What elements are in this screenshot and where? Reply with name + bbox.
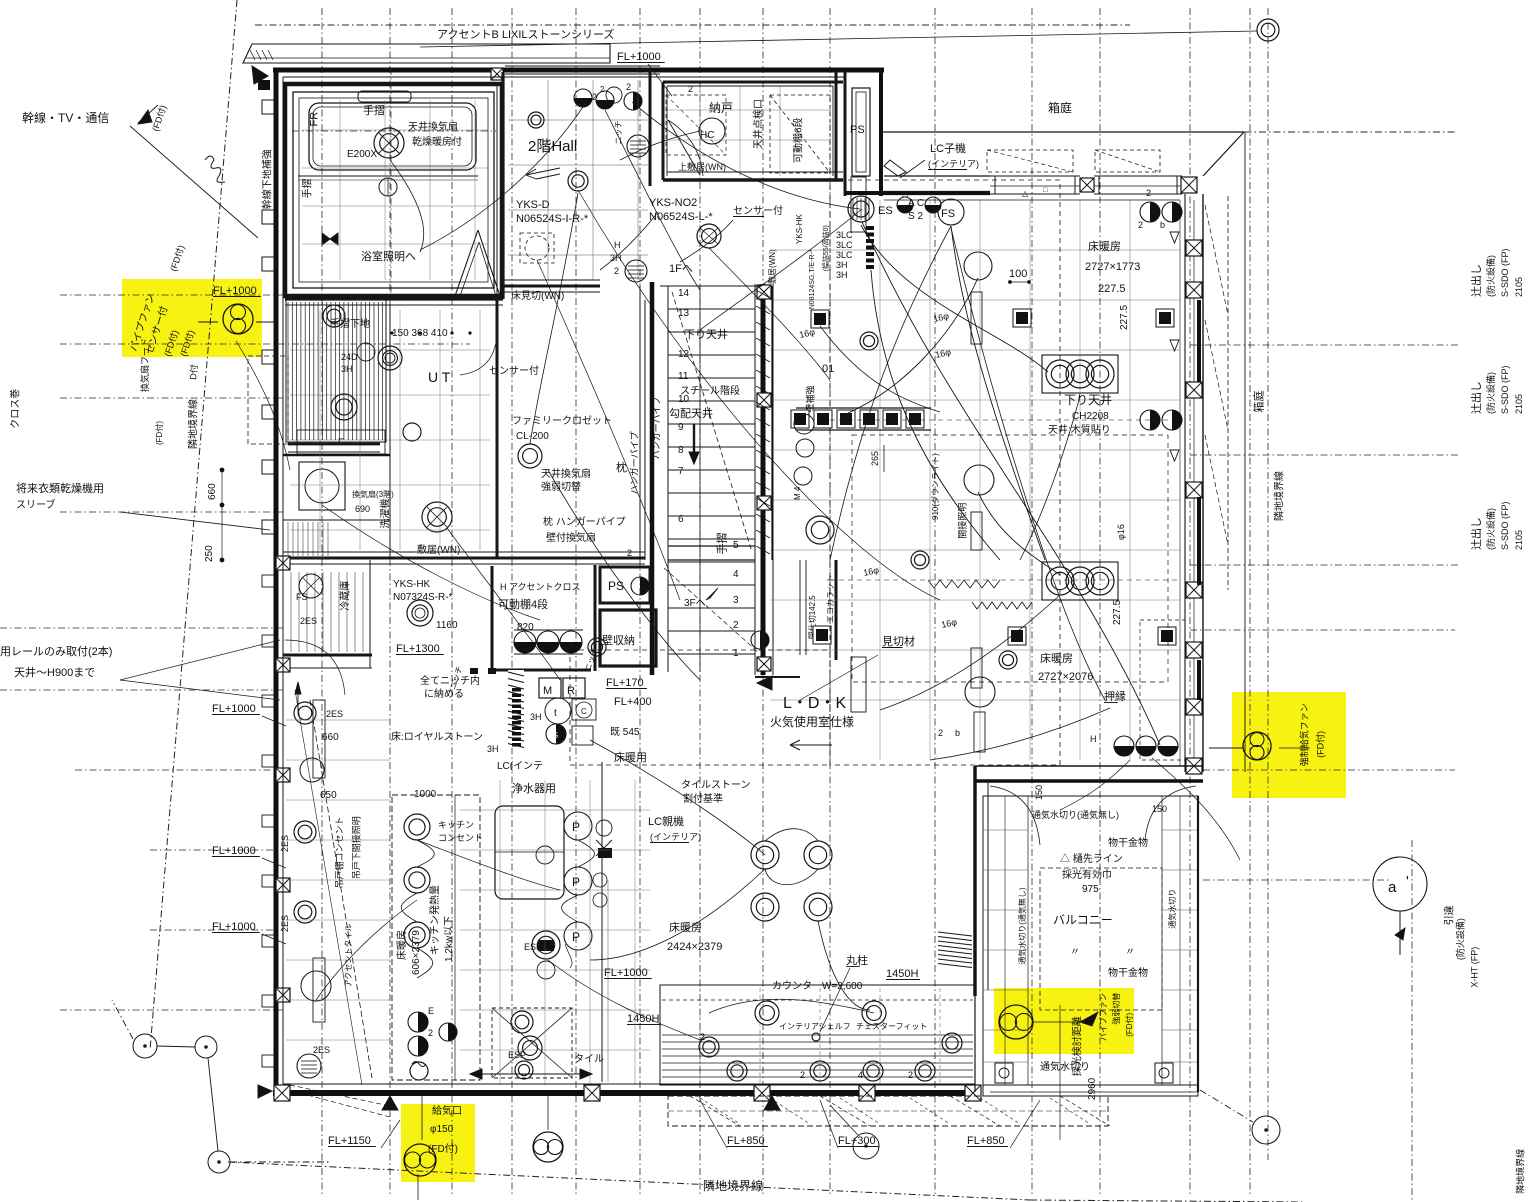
svg-text:(FD付): (FD付) bbox=[154, 421, 164, 445]
svg-text:9: 9 bbox=[678, 422, 684, 433]
svg-text:クロス巻: クロス巻 bbox=[10, 389, 22, 429]
svg-text:N06524S-I-R-*: N06524S-I-R-* bbox=[516, 213, 589, 225]
kitchen lower circles bbox=[408, 1012, 428, 1032]
svg-text:(防火設備): (防火設備) bbox=[1455, 918, 1466, 960]
svg-text:3: 3 bbox=[733, 595, 739, 606]
svg-text:φ16: φ16 bbox=[1116, 524, 1126, 540]
accent panel hatch tip bbox=[250, 50, 255, 60]
svg-text:2: 2 bbox=[688, 84, 693, 94]
svg-text:01: 01 bbox=[822, 363, 834, 375]
yellow2 fan right bbox=[1243, 732, 1271, 760]
wall: hall left / bath right bbox=[501, 72, 504, 299]
wall ticks along left exterior bbox=[262, 575, 276, 587]
svg-text:S-SDO (FP): S-SDO (FP) bbox=[1500, 365, 1510, 414]
nando inner lines bbox=[667, 85, 833, 87]
svg-text:通気水切り(通気無し): 通気水切り(通気無し) bbox=[1017, 887, 1027, 965]
svg-text:2: 2 bbox=[908, 1070, 913, 1080]
wall: balcony top (LDK lower-right) bbox=[975, 765, 1203, 767]
svg-text:タイル: タイル bbox=[574, 1053, 604, 1065]
UT room grid bbox=[319, 310, 321, 550]
svg-text:FL+1150: FL+1150 bbox=[328, 1135, 371, 1147]
kitchen left dashed cabinet bbox=[392, 795, 480, 1080]
inner line exterior bottom wall bbox=[283, 1083, 975, 1085]
floor heating panel lower bbox=[1042, 562, 1118, 600]
boundary line bottom (slanted) bbox=[228, 1162, 1030, 1200]
wall: UT/stair divider x=652 bbox=[650, 282, 655, 675]
svg-text:2: 2 bbox=[1138, 220, 1143, 230]
bath room grid bbox=[339, 100, 341, 280]
wall piece 01 bbox=[771, 286, 773, 560]
bathroom small circle bbox=[379, 178, 397, 196]
svg-text:チェスターフィット: チェスターフィット bbox=[856, 1022, 927, 1031]
zigzag partition hatch LDK bbox=[928, 580, 1000, 588]
svg-text:強弱切替: 強弱切替 bbox=[541, 480, 581, 493]
svg-text:2: 2 bbox=[627, 548, 632, 558]
svg-text:2: 2 bbox=[733, 620, 739, 631]
svg-text:通気水切り(通気無し): 通気水切り(通気無し) bbox=[1032, 809, 1119, 820]
vent triangles right wall bbox=[1170, 232, 1179, 243]
svg-text:14: 14 bbox=[678, 288, 690, 299]
svg-text:975: 975 bbox=[1082, 884, 1099, 895]
svg-text:辻出し: 辻出し bbox=[1469, 381, 1483, 414]
stair top divider bbox=[660, 285, 762, 287]
svg-text:バルコニー: バルコニー bbox=[1053, 913, 1113, 927]
counter bar bottom-right bbox=[660, 985, 975, 1085]
svg-text:隣地境界線: 隣地境界線 bbox=[187, 399, 200, 449]
svg-text:150: 150 bbox=[1034, 785, 1044, 800]
boundary line left (slanted) bbox=[150, 0, 237, 1050]
svg-text:X-HT (FP): X-HT (FP) bbox=[1470, 947, 1480, 988]
kitchen island bbox=[495, 806, 564, 899]
ES FS circles top bbox=[848, 196, 874, 222]
room: wall storage bbox=[600, 610, 656, 666]
svg-text:床暖房: 床暖房 bbox=[669, 920, 702, 934]
balcony inner dashed bbox=[1040, 868, 1162, 1010]
pendant P circles bbox=[564, 812, 592, 840]
hakoniwa fence line right bbox=[1244, 132, 1246, 772]
washing machine bbox=[299, 462, 345, 510]
svg-text:12: 12 bbox=[678, 349, 690, 360]
UT bottom wall inner bbox=[283, 551, 645, 553]
boundary survey circles bottom-left bbox=[133, 1034, 157, 1058]
svg-text:敷居(WN): 敷居(WN) bbox=[417, 543, 460, 556]
LDK extra dashes bbox=[852, 435, 1168, 682]
black square near ecocarat bbox=[813, 626, 831, 644]
svg-text:(FD付): (FD付) bbox=[428, 1142, 458, 1155]
svg-text:3LC: 3LC bbox=[836, 230, 853, 240]
svg-text:下り天井: 下り天井 bbox=[1064, 393, 1112, 407]
svg-text:P: P bbox=[572, 820, 580, 834]
hall sensor circle bbox=[568, 171, 588, 191]
svg-text:割付基準: 割付基準 bbox=[683, 792, 723, 805]
svg-text:1000: 1000 bbox=[414, 789, 437, 800]
svg-text:3H: 3H bbox=[487, 744, 499, 754]
kitchen half circle with E bbox=[439, 1023, 457, 1041]
corridor grid bbox=[286, 719, 390, 721]
svg-text:227.5: 227.5 bbox=[1098, 283, 1126, 295]
ESP symbol bbox=[532, 931, 560, 959]
svg-text:通気水切り: 通気水切り bbox=[1040, 1060, 1090, 1073]
stair diagonal rail bbox=[672, 292, 752, 552]
svg-text:FL+850: FL+850 bbox=[727, 1135, 765, 1147]
svg-text:箱庭: 箱庭 bbox=[1048, 100, 1072, 115]
stair landing lines bbox=[668, 545, 755, 547]
01 niche wall lines bbox=[796, 407, 931, 409]
black arrow top-left corner bbox=[252, 66, 268, 84]
svg-text:既 545: 既 545 bbox=[610, 726, 640, 738]
svg-text:660: 660 bbox=[207, 483, 218, 500]
LDK room grid bbox=[879, 200, 881, 760]
svg-text:壁収納: 壁収納 bbox=[602, 633, 635, 647]
svg-text:1450H: 1450H bbox=[886, 968, 918, 980]
svg-text:FL+170: FL+170 bbox=[606, 677, 644, 689]
svg-text:2960: 2960 bbox=[1087, 1077, 1098, 1100]
xbox top wall at bath corner bbox=[491, 68, 503, 80]
svg-text:手摺下地: 手摺下地 bbox=[330, 317, 370, 330]
svg-text:天井〜H900まで: 天井〜H900まで bbox=[14, 665, 95, 679]
svg-text:床見切(WN): 床見切(WN) bbox=[511, 289, 564, 302]
roof eave line top-right bbox=[882, 131, 1244, 133]
svg-text:ESP: ESP bbox=[508, 1050, 526, 1060]
upper hall extra bbox=[606, 87, 622, 103]
svg-text:辻出し: 辻出し bbox=[1469, 517, 1483, 550]
circles near 01 wall bbox=[794, 414, 814, 434]
balcony left lower wall bbox=[974, 996, 976, 1092]
sink small circles bbox=[593, 873, 607, 887]
wall: below bathroom bbox=[285, 297, 503, 300]
svg-text:U T: U T bbox=[428, 369, 451, 385]
svg-text:3Fへ: 3Fへ bbox=[684, 598, 706, 609]
FD triangles at bottom wall bbox=[382, 1096, 398, 1110]
svg-text:2: 2 bbox=[428, 1028, 433, 1038]
stair bottom arrow bbox=[757, 676, 772, 690]
svg-text:G: G bbox=[552, 731, 558, 740]
svg-text:見切材: 見切材 bbox=[882, 634, 915, 648]
bath floor divider bbox=[298, 175, 478, 177]
round column center counter bbox=[812, 1033, 820, 1041]
svg-text:N07324S-R-*: N07324S-R-* bbox=[393, 592, 453, 603]
svg-text:100: 100 bbox=[1009, 268, 1027, 280]
svg-text:2424×2379: 2424×2379 bbox=[667, 941, 722, 953]
P-to-ESP arcs bbox=[578, 840, 595, 867]
inner line exterior left wall bbox=[282, 77, 284, 1084]
svg-text:用レールのみ取付(2本): 用レールのみ取付(2本) bbox=[0, 644, 112, 658]
svg-text:2: 2 bbox=[1146, 188, 1151, 198]
svg-text:E: E bbox=[428, 1006, 434, 1016]
black square outlets bbox=[811, 310, 829, 328]
storeroom door arc bbox=[668, 120, 700, 175]
bathroom fan (E200X) bbox=[374, 128, 404, 158]
svg-text:H: H bbox=[1090, 734, 1097, 744]
svg-text:ファミリークロゼット: ファミリークロゼット bbox=[512, 415, 612, 427]
svg-text:M: M bbox=[543, 685, 552, 697]
svg-text:2: 2 bbox=[600, 85, 605, 94]
svg-text:FL+1300: FL+1300 bbox=[396, 643, 440, 655]
svg-text:3LC: 3LC bbox=[836, 250, 853, 260]
balcony entry arcs bbox=[990, 786, 1040, 845]
tile square cluster bottom bbox=[492, 1008, 572, 1078]
svg-text:FL+1000: FL+1000 bbox=[212, 845, 256, 857]
counter circles bbox=[699, 1037, 719, 1057]
svg-text:YKS-HK: YKS-HK bbox=[795, 214, 804, 244]
svg-text:下り天井: 下り天井 bbox=[684, 327, 728, 341]
svg-text:納戸: 納戸 bbox=[709, 101, 733, 115]
wall right thick segments bbox=[1197, 300, 1201, 382]
svg-text:強弱切替: 強弱切替 bbox=[1111, 993, 1121, 1025]
svg-text:(FD付): (FD付) bbox=[1316, 731, 1326, 758]
wall: hall bottom bbox=[503, 285, 600, 288]
svg-text:2: 2 bbox=[614, 266, 619, 276]
floor register circles mid bbox=[751, 841, 779, 869]
hall top circles (downlights) bbox=[574, 89, 592, 107]
striped circle hall niche bbox=[627, 135, 649, 157]
svg-text:FS: FS bbox=[941, 208, 955, 220]
svg-text:FL+400: FL+400 bbox=[614, 696, 652, 708]
deck dashed below wall bbox=[668, 1096, 1108, 1126]
corridor left features bbox=[313, 700, 325, 778]
vanity counter bbox=[297, 430, 385, 454]
misc tiny squares kitchen wall bbox=[470, 668, 478, 674]
bathroom butterfly vent bbox=[322, 233, 330, 245]
svg-text:YKS-HK: YKS-HK bbox=[393, 579, 431, 590]
svg-text:t: t bbox=[554, 708, 557, 719]
LDK right furniture dashed bbox=[1140, 620, 1185, 760]
svg-text:2ES: 2ES bbox=[280, 835, 290, 852]
svg-text:1450H: 1450H bbox=[627, 1013, 659, 1025]
svg-text:上敷居(WN): 上敷居(WN) bbox=[678, 161, 726, 172]
wall segment right of stairs bbox=[835, 560, 838, 660]
UT symbols bbox=[331, 394, 357, 420]
svg-text:11: 11 bbox=[678, 371, 689, 382]
svg-text:HC: HC bbox=[700, 130, 714, 141]
striped circle hall lower bbox=[625, 260, 647, 282]
wall: kitchen north wall y=670 bbox=[492, 669, 591, 672]
triple circle UT bbox=[378, 346, 402, 370]
extra dashed box hall ceiling bbox=[666, 95, 726, 155]
grid horizontal lines bbox=[255, 24, 1130, 26]
svg-text:洗濯機: 洗濯機 bbox=[379, 499, 392, 529]
wall: LDK right-bottom vertical bbox=[973, 766, 976, 996]
FS circle corridor bbox=[299, 574, 323, 598]
svg-text:1Fへ: 1Fへ bbox=[669, 263, 693, 275]
deck dashed hatch more bbox=[700, 1098, 740, 1124]
svg-text:床暖房: 床暖房 bbox=[395, 930, 408, 960]
spotlight row bbox=[791, 410, 809, 428]
svg-text:': ' bbox=[1406, 873, 1409, 890]
dimmer dot stack bbox=[866, 226, 874, 230]
right wall inner line bbox=[1179, 200, 1181, 766]
slat wall block below bathroom bbox=[287, 302, 289, 440]
svg-text:アクセントB LIXILストーンシリーズ: アクセントB LIXILストーンシリーズ bbox=[437, 27, 614, 41]
floor heating panel upper bbox=[1042, 355, 1118, 393]
svg-text:強制給気ファン: 強制給気ファン bbox=[1299, 703, 1310, 766]
svg-text:CH2208: CH2208 bbox=[1072, 411, 1109, 422]
svg-text:勾配天井: 勾配天井 bbox=[669, 406, 713, 420]
svg-text:2ES: 2ES bbox=[326, 709, 343, 719]
kitchen appliance symbols bbox=[545, 698, 571, 724]
svg-text:センサー付: センサー付 bbox=[733, 204, 783, 217]
svg-text:PS: PS bbox=[608, 579, 624, 593]
svg-text:650: 650 bbox=[320, 790, 337, 801]
svg-text:2105: 2105 bbox=[1514, 530, 1524, 550]
svg-text:床暖用: 床暖用 bbox=[614, 750, 647, 764]
svg-text:カウンターW=2,600: カウンターW=2,600 bbox=[772, 980, 863, 992]
svg-text:FL+1000: FL+1000 bbox=[617, 51, 661, 63]
wall: PS shaft top-right bbox=[845, 68, 884, 73]
svg-text:物干金物: 物干金物 bbox=[1108, 836, 1148, 849]
svg-text:S 2: S 2 bbox=[908, 211, 923, 222]
hall grid lines bbox=[547, 80, 549, 280]
svg-text:2: 2 bbox=[592, 92, 597, 102]
svg-text:b: b bbox=[955, 728, 960, 738]
svg-text:LC子機: LC子機 bbox=[930, 141, 966, 155]
svg-text:2105: 2105 bbox=[1514, 394, 1524, 414]
svg-text:丸柱: 丸柱 bbox=[846, 953, 868, 967]
corridor up arrow bbox=[295, 682, 301, 694]
laundry hatch lines bbox=[287, 522, 289, 560]
yellow3 fan bottom bbox=[999, 1005, 1033, 1039]
stair down arrow bbox=[693, 424, 695, 458]
svg-text:2727×2076: 2727×2076 bbox=[1038, 671, 1093, 683]
svg-text:2ES: 2ES bbox=[313, 1045, 330, 1055]
svg-text:換気扇(3階): 換気扇(3階) bbox=[352, 489, 394, 499]
svg-text:a: a bbox=[1388, 879, 1397, 896]
wall: exterior bottom bbox=[273, 1090, 980, 1096]
window bay dashed top bbox=[987, 150, 1073, 172]
svg-text:キッチン発熱量: キッチン発熱量 bbox=[428, 885, 441, 955]
svg-text:(FD付): (FD付) bbox=[1124, 1012, 1134, 1036]
bottom wall xboxes bbox=[274, 1085, 290, 1101]
svg-text:N06524S-L-*: N06524S-L-* bbox=[649, 211, 713, 223]
svg-text:通気水切り: 通気水切り bbox=[1167, 889, 1177, 929]
svg-text:浄水器用: 浄水器用 bbox=[512, 781, 556, 795]
svg-text:D付: D付 bbox=[188, 364, 199, 380]
dashed outline left of slat block bbox=[248, 356, 288, 444]
svg-text:床暖房: 床暖房 bbox=[1040, 651, 1073, 665]
nando leader bbox=[620, 131, 700, 160]
svg-text:スリーブ: スリーブ bbox=[16, 498, 55, 511]
second flight diagonals bbox=[664, 568, 758, 652]
svg-text:S-SDO (FP): S-SDO (FP) bbox=[1500, 248, 1510, 297]
PS inner slot bbox=[856, 92, 866, 172]
svg-text:FL+1000: FL+1000 bbox=[212, 921, 256, 933]
room: storeroom nando walls bbox=[663, 81, 843, 84]
highlight: pipe fan bottom right bbox=[994, 988, 1134, 1054]
svg-text:手摺: 手摺 bbox=[714, 532, 728, 554]
svg-text:4: 4 bbox=[733, 569, 739, 580]
svg-text:910(ダウンライト): 910(ダウンライト) bbox=[930, 453, 940, 520]
svg-text:(インテリア): (インテリア) bbox=[650, 832, 701, 842]
coil symbol bbox=[205, 156, 225, 182]
yellow1 fan symbol bbox=[223, 304, 253, 334]
svg-text:引違: 引違 bbox=[1443, 905, 1456, 925]
wall: hall/stair divider bbox=[649, 70, 652, 186]
highlight: air inlet bottom bbox=[401, 1104, 475, 1182]
svg-text:FL+1000: FL+1000 bbox=[213, 285, 257, 297]
LDK dashed zone bbox=[830, 180, 1060, 765]
svg-text:250: 250 bbox=[204, 545, 215, 562]
svg-text:FR: FR bbox=[308, 112, 320, 127]
balcony outline bbox=[983, 796, 1198, 1096]
svg-text:L・D・K: L・D・K bbox=[783, 695, 846, 712]
dash-dot into UT bbox=[60, 343, 470, 345]
stair right wall xboxes bbox=[757, 285, 771, 299]
svg-text:コンセント: コンセント bbox=[438, 833, 483, 843]
svg-text:3H: 3H bbox=[836, 260, 848, 270]
svg-text:ハンガーパイプ: ハンガーパイプ bbox=[652, 396, 662, 459]
svg-text:6: 6 bbox=[678, 514, 684, 525]
wall: pantry area y650-672 bbox=[283, 654, 372, 657]
wall below slat block double bbox=[288, 443, 380, 446]
nando dashed shelf bbox=[770, 95, 830, 173]
inner line exterior top wall bbox=[283, 76, 845, 78]
svg-text:660: 660 bbox=[322, 732, 339, 743]
svg-text:2105: 2105 bbox=[1514, 277, 1524, 297]
hall bottom inner bbox=[503, 279, 600, 281]
stair area hatch right wall bbox=[756, 290, 770, 298]
svg-text:換気扇フード: 換気扇フード bbox=[139, 338, 150, 392]
balcony hatch block bbox=[938, 932, 972, 936]
svg-text:2: 2 bbox=[700, 1032, 705, 1042]
svg-text:227.5: 227.5 bbox=[1119, 305, 1130, 330]
svg-text:FL+300: FL+300 bbox=[838, 1135, 876, 1147]
survey circle top-right bbox=[1257, 19, 1279, 41]
ceiling speakers bbox=[964, 252, 992, 280]
svg-text:ES: ES bbox=[878, 205, 893, 217]
window sill ticks top bbox=[994, 176, 996, 194]
svg-text:給気口: 給気口 bbox=[432, 1104, 462, 1117]
svg-text:敷居(WN): 敷居(WN) bbox=[767, 249, 777, 284]
svg-text:b: b bbox=[1160, 220, 1165, 230]
MR boxes bbox=[539, 678, 561, 698]
svg-text:R: R bbox=[567, 685, 575, 697]
svg-text:2: 2 bbox=[938, 728, 943, 738]
svg-text:手摺: 手摺 bbox=[301, 178, 314, 198]
svg-text:CL-200: CL-200 bbox=[516, 431, 549, 442]
svg-text:に納める: に納める bbox=[424, 687, 464, 700]
svg-text:押縁: 押縁 bbox=[1104, 689, 1126, 703]
highlight: forced air supply fan right bbox=[1232, 692, 1346, 798]
pendant slots bbox=[851, 177, 866, 232]
svg-text:天井点検口: 天井点検口 bbox=[752, 99, 765, 149]
svg-text:150: 150 bbox=[1152, 804, 1167, 814]
svg-text:8: 8 bbox=[678, 445, 684, 456]
svg-text:隣地境界線: 隣地境界線 bbox=[703, 1178, 763, 1193]
svg-text:火気使用室仕様: 火気使用室仕様 bbox=[770, 714, 854, 729]
svg-text:パイプファン: パイプファン bbox=[1099, 993, 1108, 1041]
svg-text:265: 265 bbox=[870, 451, 880, 466]
wall: exterior left bbox=[274, 70, 279, 1096]
wall: living right with windows bbox=[1184, 194, 1186, 772]
balcony right edge thick bbox=[1197, 796, 1199, 1092]
svg-text:LC(インテ: LC(インテ bbox=[497, 761, 543, 772]
svg-text:3H: 3H bbox=[530, 712, 542, 722]
svg-text:N08124SG.T/E-R-*: N08124SG.T/E-R-* bbox=[809, 249, 816, 309]
a-dash section mark bbox=[1373, 857, 1427, 911]
ecokarat partition double lines bbox=[799, 560, 801, 655]
svg-text:FL+1000: FL+1000 bbox=[604, 967, 648, 979]
svg-text:2ES: 2ES bbox=[300, 616, 317, 626]
svg-text:690: 690 bbox=[355, 504, 370, 514]
hall sensor double bbox=[697, 224, 721, 248]
white arrow in wall bbox=[884, 160, 906, 176]
bathroom center dashdot bbox=[292, 130, 496, 132]
three half circles niche wall bbox=[514, 631, 536, 653]
UT inner partitions bbox=[389, 305, 391, 558]
bathtub bbox=[309, 103, 476, 170]
svg-text:(幅詰55/高詰0): (幅詰55/高詰0) bbox=[821, 225, 830, 271]
niche hatched strip bbox=[508, 670, 524, 748]
